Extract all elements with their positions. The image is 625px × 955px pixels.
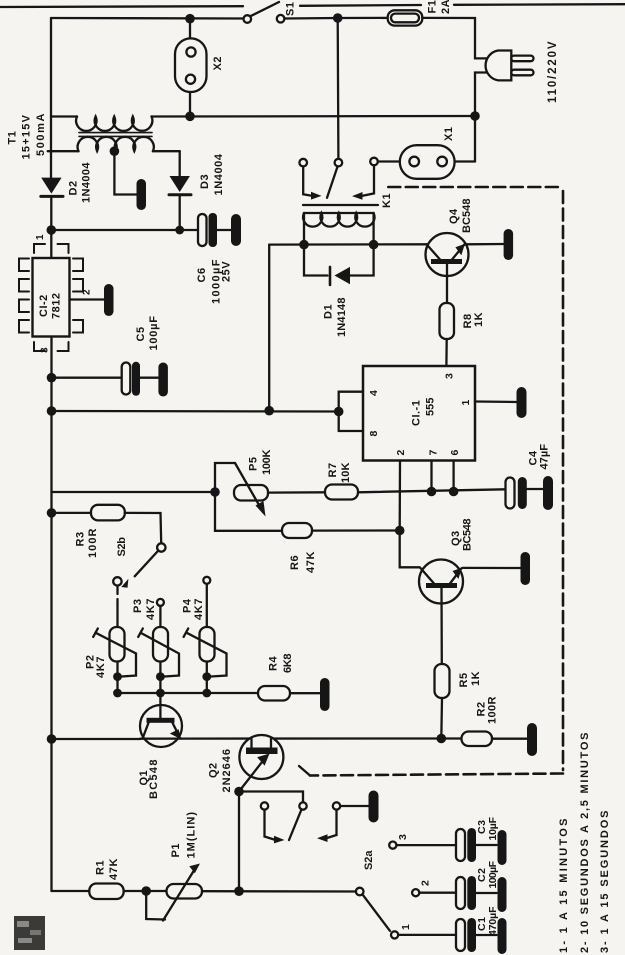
diode D1 1N4148 loop <box>304 245 374 285</box>
svg-text:3: 3 <box>397 834 409 840</box>
wire P1 to S2a <box>202 890 356 893</box>
node P4 wiper <box>202 672 211 681</box>
svg-text:500mA: 500mA <box>35 113 47 156</box>
ground R2 <box>527 723 537 756</box>
wire pin4 <box>339 392 363 431</box>
relay K1 coil <box>303 213 374 245</box>
diode D3 1N4004 <box>169 176 191 195</box>
svg-text:Q2: Q2 <box>208 762 220 778</box>
wire CI-2 pin3 down <box>50 337 52 892</box>
wire C5 rail <box>52 377 122 379</box>
wire Q1 emitter rail to Q2 <box>182 737 442 739</box>
transistor Q2 2N2646 <box>239 735 283 792</box>
wire fuse to plug <box>422 18 487 59</box>
resistor R4 6K8 <box>258 686 290 701</box>
svg-text:1- 1 A 15 MINUTOS: 1- 1 A 15 MINUTOS <box>558 818 570 953</box>
wire pos2 to C2 <box>419 892 456 894</box>
svg-text:15+15V: 15+15V <box>21 114 33 159</box>
ground CI-2 pin2 <box>104 284 114 316</box>
node P2 wiper <box>113 672 122 681</box>
svg-text:100µF: 100µF <box>148 316 160 351</box>
svg-text:S2b: S2b <box>116 537 128 557</box>
svg-text:1: 1 <box>35 234 46 240</box>
svg-text:4K7: 4K7 <box>145 598 157 620</box>
svg-text:P3: P3 <box>132 599 144 613</box>
resistor R8 1K <box>440 303 455 339</box>
potentiometer P1 1M <box>146 864 202 921</box>
node pin6 junction <box>449 487 459 497</box>
node X2 primary junction <box>185 112 195 122</box>
node Q1 rail left <box>47 734 57 744</box>
scan artifact blob bottom-left <box>14 916 45 950</box>
svg-text:3: 3 <box>40 347 51 353</box>
node pin7 junction <box>427 487 437 497</box>
resistor R1 47K <box>89 884 123 900</box>
svg-text:1K: 1K <box>470 671 482 686</box>
resistor R3 100R <box>52 505 162 544</box>
relay K1 separator <box>303 204 378 206</box>
wire mains down to primary <box>50 18 52 117</box>
svg-text:2: 2 <box>395 449 407 455</box>
svg-text:110/220V: 110/220V <box>547 41 559 103</box>
svg-text:R7: R7 <box>327 462 339 477</box>
transistor Q4 BC548 <box>426 233 469 303</box>
svg-text:2: 2 <box>82 289 93 295</box>
wire pin2 down <box>399 461 402 531</box>
node R1/P1 junction <box>141 886 151 896</box>
svg-text:7: 7 <box>427 449 439 455</box>
resistor R5 1K <box>435 664 450 698</box>
switch S2b <box>113 543 165 588</box>
wire node to Q3 collector <box>400 531 420 568</box>
wire R6 to pin2 node <box>312 529 400 531</box>
wire Q3 emitter ground <box>463 567 521 569</box>
wire emitter node down <box>238 792 240 892</box>
S2a position 1 circle <box>391 931 398 938</box>
svg-text:1M(LIN): 1M(LIN) <box>186 812 198 859</box>
node K1 coil left <box>299 240 309 250</box>
svg-text:3: 3 <box>444 373 456 379</box>
svg-text:555: 555 <box>425 397 437 416</box>
wire CI-2 pin2 <box>70 298 105 300</box>
node P2 bus <box>113 689 122 698</box>
svg-text:100µF: 100µF <box>487 860 499 888</box>
svg-text:8: 8 <box>368 430 380 436</box>
svg-text:D3: D3 <box>199 174 211 189</box>
node P5 left junction <box>210 487 220 497</box>
potentiometer P5 100K <box>215 463 325 517</box>
wire rectifier rail <box>51 229 198 231</box>
socket X2 <box>175 38 207 92</box>
wire Q4 emitter to ground <box>466 243 504 246</box>
svg-text:1K: 1K <box>473 312 485 327</box>
svg-text:P5: P5 <box>248 457 260 471</box>
wire coil rail <box>269 243 426 246</box>
wire secondary left to D2 <box>50 117 52 178</box>
svg-text:47K: 47K <box>108 858 120 880</box>
capacitor C1 470uF <box>456 918 497 952</box>
svg-text:X1: X1 <box>443 127 455 141</box>
transformer T1 primary <box>51 116 475 131</box>
svg-text:100R: 100R <box>487 696 499 724</box>
wire pin8 <box>339 430 363 432</box>
svg-text:1N4004: 1N4004 <box>81 162 93 203</box>
wire node to R2 <box>441 737 461 739</box>
svg-text:100K: 100K <box>261 449 273 475</box>
svg-text:Q3: Q3 <box>450 530 462 546</box>
wire secondary right to D3 <box>179 151 181 176</box>
S2a position 3 circle <box>389 842 396 849</box>
node fuse feed junction <box>333 13 343 23</box>
svg-text:1N4004: 1N4004 <box>213 153 225 195</box>
node center tap <box>110 146 120 156</box>
svg-text:BC548: BC548 <box>462 518 474 551</box>
node S2a vertical junction <box>234 886 244 896</box>
capacitor C2 100uF <box>456 876 497 910</box>
svg-text:T1: T1 <box>7 131 19 145</box>
svg-text:P1: P1 <box>170 843 182 857</box>
wire D3 cathode <box>179 195 181 230</box>
transformer T1 core <box>79 133 152 137</box>
potentiometer P4 4K7 <box>184 577 227 693</box>
wire R7 to pins to C4 <box>358 489 506 492</box>
svg-text:100R: 100R <box>87 528 99 558</box>
transistor Q1 BC548 <box>140 705 182 747</box>
fuse F1 <box>388 10 423 25</box>
svg-text:470µF: 470µF <box>487 906 499 936</box>
diode D2 1N4004 <box>41 178 63 197</box>
svg-text:47µF: 47µF <box>539 444 551 470</box>
wire R2 to ground <box>492 738 527 740</box>
wire +12 to coil <box>268 245 270 411</box>
node pin4/8 +12 junction <box>334 407 344 417</box>
ground pin1 <box>517 387 527 418</box>
svg-text:4: 4 <box>368 390 380 396</box>
svg-text:1: 1 <box>460 399 472 405</box>
svg-text:R3: R3 <box>75 531 87 546</box>
dashed box top edge <box>388 186 561 189</box>
svg-text:D1: D1 <box>323 304 335 319</box>
wire S1 feed line <box>51 17 244 20</box>
svg-text:Q4: Q4 <box>448 208 460 224</box>
wire emitter node to S2 contact <box>239 792 303 803</box>
ground R4 <box>320 678 330 711</box>
wire pots bus to R4 <box>118 692 259 694</box>
ground C5 <box>158 363 168 397</box>
node Q2 emitter junction <box>234 787 244 797</box>
regulator CI-2 7812 <box>19 244 83 351</box>
svg-text:25V: 25V <box>221 261 233 282</box>
dashed box corner jog <box>299 766 310 776</box>
svg-text:4K7: 4K7 <box>95 656 107 678</box>
svg-text:BC548: BC548 <box>148 759 160 799</box>
svg-text:X2: X2 <box>212 56 224 70</box>
svg-text:2N2646: 2N2646 <box>221 749 233 793</box>
transformer T1 secondary <box>48 137 180 151</box>
svg-text:CI-2: CI-2 <box>38 294 50 317</box>
node X2 top junction <box>185 14 195 24</box>
node R3 left <box>47 508 57 518</box>
svg-text:C6: C6 <box>196 267 208 282</box>
svg-text:7812: 7812 <box>51 293 63 319</box>
wire bottom rail <box>52 890 90 892</box>
potentiometer P3 4K7 <box>138 599 179 705</box>
wire pin6 down <box>452 461 454 492</box>
ground Q3 <box>521 552 531 585</box>
svg-text:2A: 2A <box>440 0 452 14</box>
wire S1 to fuse <box>284 17 387 20</box>
plug 110/220V <box>486 51 534 81</box>
resistor R2 100R <box>462 732 493 747</box>
svg-text:10K: 10K <box>340 462 352 483</box>
ground S2 upper <box>369 791 379 823</box>
node rectifier output <box>47 225 57 235</box>
wire mains top line A <box>0 4 625 7</box>
dashed box bottom edge <box>310 774 563 776</box>
wire pos1 to C1 <box>398 934 456 936</box>
svg-text:F1: F1 <box>427 0 439 14</box>
svg-text:3- 1 A 15 SEGUNDOS: 3- 1 A 15 SEGUNDOS <box>599 810 611 953</box>
svg-text:1: 1 <box>400 924 412 930</box>
svg-text:S1: S1 <box>285 2 297 16</box>
node C5 junction <box>47 373 57 383</box>
potentiometer P2 4K7 <box>93 627 136 693</box>
wire pos3 to C3 <box>397 844 457 846</box>
svg-text:R5: R5 <box>458 672 470 687</box>
node P3 bus <box>156 689 165 698</box>
svg-text:K1: K1 <box>381 193 393 208</box>
svg-text:C5: C5 <box>135 326 147 341</box>
ground C3 <box>498 830 507 865</box>
svg-text:6: 6 <box>449 449 461 455</box>
wire pin1 <box>475 400 517 403</box>
node R5/R2 junction <box>437 734 447 744</box>
svg-text:1N4148: 1N4148 <box>336 297 348 337</box>
svg-text:R1: R1 <box>95 860 107 875</box>
wire R8 to pin3 <box>445 339 448 366</box>
svg-text:BC548: BC548 <box>461 198 473 233</box>
svg-text:R4: R4 <box>268 656 280 671</box>
switch S2 upper contacts <box>261 802 369 843</box>
svg-text:10µF: 10µF <box>487 816 499 840</box>
svg-text:P4: P4 <box>182 598 194 613</box>
node D3 rail junction <box>175 226 184 235</box>
wire pin7 down <box>430 461 432 492</box>
svg-text:R6: R6 <box>289 555 301 570</box>
svg-text:6K8: 6K8 <box>282 653 294 673</box>
S2a position 2 circle <box>412 889 419 896</box>
svg-text:S2a: S2a <box>363 850 375 870</box>
capacitor C6 1000uF <box>198 213 231 247</box>
wire X2 bottom stub <box>189 92 191 116</box>
wire X2 top stub <box>189 19 191 38</box>
wire Q1 collector rail <box>52 738 141 740</box>
capacitor C5 100uF <box>122 362 159 396</box>
relay K1 contacts <box>299 158 377 200</box>
svg-text:D2: D2 <box>68 180 80 195</box>
wire K1 common up <box>337 18 340 159</box>
wire D2 cathode <box>50 196 52 230</box>
dashed box right edge <box>562 191 565 770</box>
capacitor C4 47uF <box>506 477 544 509</box>
wire S2b to P2 dashed <box>116 587 118 604</box>
ground C1 <box>498 918 507 954</box>
transistor Q3 BC548 <box>419 560 463 665</box>
svg-text:2- 10 SEGUNDOS A 2,5 MINUTO: 2- 10 SEGUNDOS A 2,5 MINUTOS <box>579 732 591 953</box>
svg-text:2: 2 <box>420 880 432 886</box>
wire K1 NC to X1 <box>378 160 400 162</box>
resistor R6 47K <box>282 523 312 538</box>
node +12 coil junction <box>264 406 274 416</box>
wire X1 right <box>455 160 475 162</box>
wire R4 to ground <box>290 692 320 694</box>
wire +12V rail <box>52 410 339 413</box>
node P3 wiper <box>156 672 165 681</box>
node plug/primary junction <box>470 111 480 121</box>
ground Q4 <box>504 229 513 260</box>
svg-text:4K7: 4K7 <box>193 598 205 620</box>
wire R1 to P1 <box>124 890 167 892</box>
resistor R7 10K <box>325 485 358 500</box>
ground center tap <box>137 179 147 210</box>
wire P5 down branch <box>215 492 282 531</box>
wire plug lower lead <box>475 73 487 162</box>
node P4 bus <box>202 689 211 698</box>
node +12V rail left <box>47 406 57 416</box>
IC CI-1 555 <box>363 366 475 461</box>
wire R5 to node <box>440 698 443 739</box>
wire CI-2 pin1 <box>50 230 52 258</box>
wire secondary center tap <box>114 151 136 194</box>
node pin2/R6/Q3 junction <box>395 526 405 536</box>
capacitor C3 10uF <box>456 828 497 862</box>
node K1 coil right <box>369 240 379 250</box>
ground C6 <box>231 214 241 246</box>
switch S2a <box>356 888 390 931</box>
wire timing rail <box>52 491 216 493</box>
svg-text:CI.-1: CI.-1 <box>411 400 423 426</box>
switch S1 <box>244 2 285 23</box>
socket X1 <box>400 145 455 179</box>
ground C2 <box>498 877 507 912</box>
ground C4 <box>543 476 553 510</box>
svg-text:47K: 47K <box>305 551 317 573</box>
